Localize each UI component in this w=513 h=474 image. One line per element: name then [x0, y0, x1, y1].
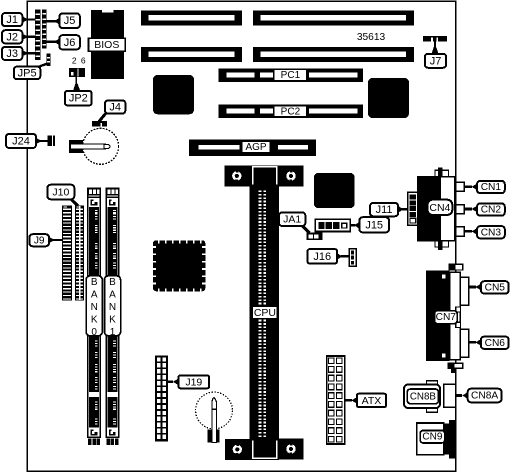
- wire J24 pointer: [40, 140, 48, 142]
- wire CN8A pointer: [456, 394, 462, 397]
- connector CN8A callout: [462, 389, 501, 403]
- battery with clip: [69, 128, 119, 164]
- DIMM socket BANK0: [88, 188, 101, 445]
- port CN1: [456, 182, 465, 191]
- svg-text:CN1: CN1: [481, 182, 502, 193]
- AGP slot: [189, 140, 316, 156]
- svg-text:CN7: CN7: [436, 312, 457, 323]
- svg-text:K: K: [91, 314, 98, 325]
- wire CN2 pointer: [464, 208, 472, 211]
- svg-text:CN8B: CN8B: [410, 391, 437, 402]
- ATX callout: [351, 394, 386, 408]
- connector J15 (4-pin): [315, 219, 350, 231]
- port CN5: [460, 277, 468, 305]
- svg-text:1: 1: [110, 327, 116, 338]
- ATX power connector: [327, 356, 345, 444]
- CPU retention mount bottom-right: [279, 438, 304, 459]
- jumper block JP2 with pins 2 and 6: [69, 56, 86, 78]
- connector J11 callout: [370, 203, 404, 216]
- pin header column A (J1/J2/J3): [35, 9, 41, 60]
- wire J2 to header: [26, 36, 35, 38]
- svg-text:J16: J16: [313, 251, 331, 263]
- connector J24: [48, 135, 55, 146]
- svg-text:6: 6: [81, 56, 86, 66]
- svg-text:J19: J19: [185, 376, 202, 388]
- connector CN3 callout: [472, 226, 505, 238]
- connector JA1: [307, 232, 323, 240]
- wire JP2 pointer: [73, 77, 81, 91]
- pin header column B (J5/J6): [42, 9, 47, 48]
- capacitor / speaker with pin: [196, 392, 233, 442]
- connector J24 callout: [6, 134, 42, 148]
- svg-text:CN3: CN3: [481, 227, 502, 238]
- port CN6: [460, 329, 468, 357]
- wire JA1 pointer: [302, 226, 310, 234]
- chip U4 (clock gen): [314, 173, 355, 208]
- port CN3: [456, 227, 465, 236]
- chip U1 (north bridge area): [153, 75, 194, 114]
- connector CN8 bracket: [444, 384, 456, 407]
- wire ATX pointer: [345, 399, 352, 402]
- svg-text:N: N: [109, 302, 116, 313]
- jumper JP5 callout: [14, 67, 41, 80]
- wire J19 pointer: [167, 380, 173, 383]
- BIOS chip: [89, 10, 126, 79]
- connector CN8B: [404, 381, 440, 412]
- connector CN2 callout: [472, 203, 505, 215]
- connector J3 callout: [2, 47, 28, 60]
- svg-text:J5: J5: [64, 15, 76, 27]
- svg-text:J1: J1: [6, 14, 18, 26]
- svg-text:CN2: CN2: [481, 205, 502, 216]
- svg-text:CPU: CPU: [254, 307, 276, 319]
- wire J5 to header: [47, 20, 56, 22]
- svg-text:CN5: CN5: [485, 282, 506, 293]
- wire J9 pointer: [49, 239, 62, 241]
- connector J1 callout: [2, 13, 28, 26]
- connector CN5 callout: [475, 281, 508, 293]
- svg-text:CN4: CN4: [429, 202, 450, 214]
- chip U2 (south bridge area): [368, 78, 409, 118]
- QFP chip U3: [153, 240, 206, 292]
- connector J4: [92, 121, 107, 127]
- connector above CN8B: [448, 363, 463, 373]
- wire J10 pointer: [71, 199, 79, 206]
- wire CN1 pointer: [464, 186, 472, 189]
- SIMM J10 callout: [47, 185, 74, 200]
- wire J7 pointer: [432, 42, 439, 54]
- connector J11 (5-pin header): [408, 192, 418, 225]
- wire CN3 pointer: [464, 230, 472, 233]
- CPU retention mount bottom-left: [225, 439, 250, 460]
- wire J11 pointer: [398, 208, 408, 210]
- connector above CN7: [449, 264, 463, 270]
- svg-text:J3: J3: [6, 48, 18, 60]
- connector J2 callout: [2, 30, 28, 43]
- connector J19 callout: [173, 375, 209, 388]
- CPU slot bottom key outline: [253, 441, 277, 459]
- svg-text:J10: J10: [52, 187, 69, 199]
- SIMM socket J9 (column 1): [62, 205, 72, 300]
- wire J15 pointer: [350, 224, 355, 226]
- wire J3 to header: [26, 52, 35, 54]
- connector J15 callout: [354, 217, 389, 232]
- part number 35613: [357, 32, 386, 43]
- svg-text:0: 0: [91, 327, 97, 338]
- svg-text:ATX: ATX: [362, 395, 382, 407]
- svg-text:J15: J15: [365, 219, 383, 231]
- svg-text:JP5: JP5: [18, 67, 37, 79]
- connector J16 (3-pin header): [349, 249, 356, 267]
- ISA slot 1: [141, 10, 414, 25]
- svg-text:JA1: JA1: [283, 214, 301, 226]
- connector CN7 (parallel/serial stack): [426, 271, 460, 361]
- connector CN4 (keyboard/mouse stack): [418, 167, 455, 250]
- CPU retention mount top-left: [224, 165, 249, 186]
- svg-text:CN8A: CN8A: [471, 391, 498, 402]
- connector J6 callout: [54, 35, 80, 49]
- connector JA1 callout: [279, 212, 305, 226]
- svg-text:N: N: [91, 302, 98, 313]
- svg-text:PC1: PC1: [281, 70, 301, 81]
- jumper JP2 callout: [65, 91, 92, 105]
- PCI slot PC2: [219, 104, 363, 118]
- connector J7: [423, 36, 447, 41]
- connector J7 callout: [425, 54, 446, 68]
- SIMM socket J10 (column 2): [75, 205, 84, 300]
- svg-text:BIOS: BIOS: [94, 39, 119, 51]
- connector CN1 callout: [472, 181, 505, 193]
- wire J6 to header: [47, 41, 56, 43]
- svg-text:PC2: PC2: [281, 106, 301, 117]
- DIMM socket BANK1: [106, 188, 119, 445]
- SIMM J9 callout: [29, 234, 54, 246]
- CN4 label: [428, 200, 453, 215]
- connector J5 callout: [54, 13, 80, 28]
- svg-text:35613: 35613: [357, 32, 386, 43]
- connector J19 (2x14 header): [156, 356, 167, 440]
- label BANK0: [86, 276, 102, 338]
- wire J4 pointer: [99, 113, 107, 122]
- CPU slot top key outline: [253, 167, 277, 185]
- svg-text:2: 2: [72, 56, 77, 66]
- CN7 side tabs: [456, 307, 461, 328]
- svg-text:A: A: [91, 290, 98, 301]
- jumper header JP5: [47, 54, 51, 67]
- connector CN6 callout: [475, 337, 508, 349]
- svg-text:B: B: [91, 277, 98, 288]
- connector J16 callout: [308, 249, 343, 263]
- connector J4 callout: [105, 100, 125, 113]
- svg-text:B: B: [109, 277, 116, 288]
- svg-text:J11: J11: [376, 204, 393, 216]
- svg-text:A: A: [109, 290, 116, 301]
- svg-text:K: K: [109, 314, 116, 325]
- label BANK1: [104, 276, 120, 338]
- svg-text:CN6: CN6: [485, 338, 506, 349]
- port CN2: [456, 205, 465, 214]
- CN7 label: [434, 311, 457, 324]
- svg-text:J6: J6: [64, 37, 76, 49]
- svg-text:CN9: CN9: [422, 432, 442, 443]
- wire CN5 pointer: [469, 286, 476, 289]
- connector CN9: [417, 420, 456, 459]
- svg-text:JP2: JP2: [69, 93, 88, 105]
- svg-text:J4: J4: [109, 102, 121, 114]
- CPU retention mount top-right: [279, 165, 304, 186]
- wire J16 pointer: [341, 255, 350, 257]
- svg-text:J24: J24: [12, 135, 30, 147]
- ISA slot 2: [141, 47, 414, 62]
- svg-text:AGP: AGP: [245, 142, 266, 153]
- svg-text:J2: J2: [6, 31, 18, 43]
- wire J1 to header: [26, 18, 35, 20]
- CPU label: [252, 306, 277, 319]
- PCI slot PC1: [219, 68, 363, 82]
- wire CN6 pointer: [469, 341, 476, 344]
- svg-text:J7: J7: [430, 55, 442, 67]
- wire JP5 pointer: [34, 64, 48, 69]
- CPU Slot-1 connector body: [249, 165, 279, 460]
- svg-text:J9: J9: [34, 235, 45, 246]
